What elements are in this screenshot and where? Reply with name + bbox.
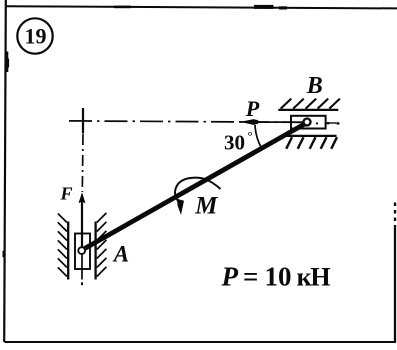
vertical centerline dot below slider A: [81, 282, 83, 285]
centerline dot inside slider B: [316, 122, 318, 124]
horizontal dash-dot centerline: [69, 121, 309, 122]
svg-text:F: F: [60, 184, 73, 204]
svg-text:P: P: [221, 262, 239, 292]
slider B upper guide: [278, 109, 338, 111]
centerline cross tick: [82, 108, 84, 134]
bar AB: [82, 122, 309, 251]
pin A: [78, 247, 85, 254]
slider B block: [291, 116, 326, 129]
svg-text:10: 10: [265, 262, 292, 292]
moment M arc: [175, 178, 220, 202]
30 degree angle arc: [255, 125, 262, 148]
slider B lower guide: [286, 135, 337, 137]
centerline thin segment: [329, 122, 336, 124]
slider A right guide hatching: [97, 213, 107, 277]
problem number circle 19: [17, 18, 52, 53]
force F arrowhead (points up): [79, 192, 86, 203]
force P arrowhead (points left along centerline): [240, 119, 258, 125]
vertical centerline through slider A: [81, 250, 83, 280]
vertical dash-dot centerline upper part: [81, 134, 84, 192]
pin B: [304, 119, 311, 126]
svg-text:M: M: [194, 192, 218, 219]
svg-text:кН: кН: [297, 263, 331, 292]
centerline segment right of slider B: [327, 122, 330, 124]
slider A right guide: [94, 222, 96, 280]
svg-text:=: =: [243, 262, 258, 292]
centerline end dash: [337, 122, 340, 124]
svg-text:A: A: [112, 242, 129, 267]
svg-text:B: B: [306, 73, 323, 99]
svg-text:19: 19: [25, 24, 47, 49]
slider A left guide: [67, 222, 69, 280]
slider A block: [75, 234, 90, 270]
svg-text:30: 30: [224, 131, 245, 155]
force F arrow shaft: [81, 196, 83, 249]
slider B lower guide hatching: [286, 137, 337, 149]
svg-text:P: P: [245, 96, 260, 121]
moment M arrowhead: [177, 199, 184, 215]
svg-text:°: °: [248, 128, 253, 143]
slider B upper guide hatching: [281, 99, 340, 109]
slider A left guide hatching: [58, 214, 67, 277]
